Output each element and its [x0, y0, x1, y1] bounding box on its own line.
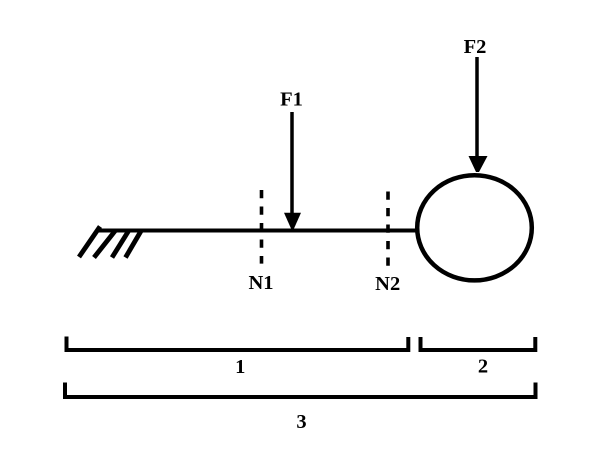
- fixed support hatching: [79, 227, 141, 258]
- beam: [98, 229, 419, 233]
- dimension bracket 1: [67, 337, 409, 351]
- dimension bracket 2: [421, 337, 536, 350]
- svg-text:3: 3: [296, 411, 306, 433]
- disc: [417, 175, 532, 280]
- svg-text:2: 2: [478, 356, 488, 378]
- svg-text:1: 1: [235, 356, 245, 378]
- svg-text:F2: F2: [464, 36, 487, 58]
- section line N1: [260, 190, 264, 264]
- force F1 arrow: [284, 112, 301, 229]
- svg-text:N2: N2: [375, 273, 400, 295]
- force F2 arrow: [469, 57, 488, 172]
- section line N2: [386, 192, 390, 267]
- dimension bracket 3: [65, 383, 536, 398]
- svg-text:N1: N1: [248, 272, 273, 294]
- svg-text:F1: F1: [280, 89, 303, 111]
